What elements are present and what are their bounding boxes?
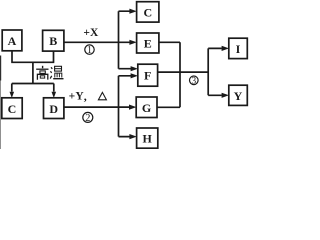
box H	[137, 128, 158, 148]
svg-text:+: +	[69, 91, 76, 103]
box D	[44, 98, 64, 119]
svg-text:,: ,	[84, 89, 87, 103]
svg-text:B: B	[49, 34, 57, 48]
label circled 2	[83, 112, 93, 124]
arrowhead into C (top middle)	[129, 9, 136, 14]
box G	[136, 97, 157, 118]
高	[42, 66, 44, 68]
arrowhead into I	[222, 46, 229, 51]
arrowhead into F upper	[131, 66, 138, 71]
delta symbol	[98, 92, 106, 99]
arrowhead into H	[129, 134, 136, 139]
svg-text:F: F	[144, 69, 151, 83]
box A	[2, 30, 22, 51]
svg-text:Y: Y	[234, 89, 243, 103]
svg-text:I: I	[236, 42, 241, 56]
温	[50, 67, 52, 78]
box F	[138, 64, 158, 86]
svg-text:2: 2	[85, 113, 90, 124]
svg-text:C: C	[8, 102, 17, 116]
arrowhead into G	[129, 105, 136, 110]
svg-text:E: E	[144, 37, 152, 51]
svg-text:+: +	[83, 27, 90, 39]
svg-text:3: 3	[191, 77, 196, 87]
box C (lower-left)	[2, 98, 22, 119]
svg-text:G: G	[142, 101, 151, 115]
svg-text:1: 1	[87, 45, 92, 56]
arrowhead into F lower	[131, 73, 138, 78]
box I	[229, 38, 248, 58]
arrowhead into Y	[222, 93, 229, 98]
wire B to branch (+X)	[64, 11, 131, 68]
svg-text:D: D	[49, 102, 58, 116]
svg-text:A: A	[8, 34, 17, 48]
svg-text:C: C	[143, 6, 152, 20]
left edge scan artifact (dark upper)	[0, 56, 1, 81]
wire D to branch (+Y)	[64, 76, 131, 137]
box E	[137, 33, 159, 53]
left edge scan artifact (faint lower)	[0, 81, 1, 150]
label circled 1	[85, 45, 94, 56]
wire A+B merge to high-temp branch	[11, 51, 54, 92]
box B	[43, 30, 64, 51]
box Y	[229, 85, 248, 105]
arrowhead into C (lower-left)	[10, 92, 15, 98]
label circled 3	[190, 76, 199, 87]
wire E/F/G merge to I/Y branch	[157, 42, 222, 107]
box C (top middle)	[137, 2, 159, 22]
arrowhead into D	[52, 92, 57, 98]
svg-text:X: X	[90, 27, 99, 39]
arrowhead into E	[129, 40, 136, 45]
svg-text:H: H	[143, 132, 153, 146]
label 高温 (high temperature)	[36, 66, 63, 80]
